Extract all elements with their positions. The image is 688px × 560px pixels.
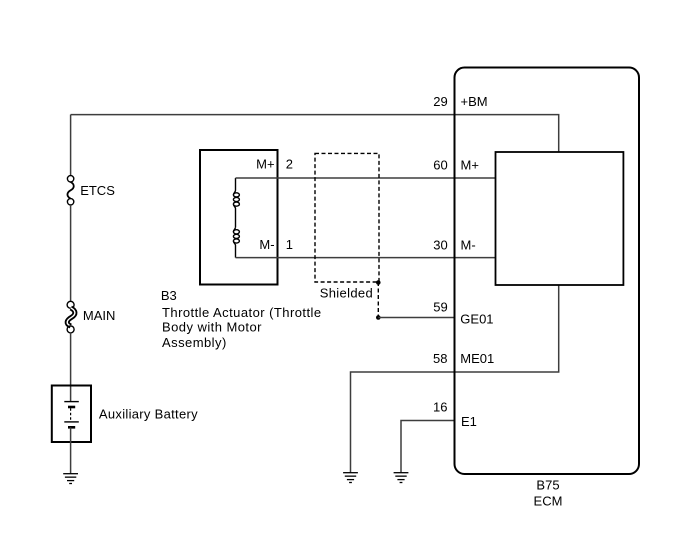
junction dot at shield corner [376,280,381,285]
fusible link MAIN [67,301,75,333]
ground under battery [63,474,78,484]
svg-text:Auxiliary Battery: Auxiliary Battery [99,406,198,421]
wire +BM from battery feed to ECM pin 29 and internal drop to driver block [71,115,559,152]
svg-text:M-: M- [259,237,274,252]
svg-text:B3: B3 [161,288,177,303]
svg-text:1: 1 [286,237,293,252]
svg-text:B75: B75 [536,478,559,493]
svg-text:30: 30 [433,238,447,253]
shield drain dashed wire [377,282,379,318]
component box B3 throttle actuator [200,150,278,285]
svg-text:MAIN: MAIN [83,308,116,323]
wire E1 from ground to ECM pin 16 [401,421,455,473]
svg-text:16: 16 [433,400,447,415]
shielded cable dashed box [315,153,379,282]
svg-text:ME01: ME01 [460,351,494,366]
wire between coils [235,209,237,228]
ECM internal driver block [496,152,624,285]
svg-text:Body with Motor: Body with Motor [162,320,262,335]
svg-text:Assembly): Assembly) [162,335,227,350]
wire left vertical battery feed (top segment above ETCS fuse) [70,115,72,176]
svg-text:+BM: +BM [461,94,488,109]
wire M- from coil to ECM pin 30 [236,257,496,259]
svg-text:M+: M+ [256,156,274,171]
svg-text:M+: M+ [461,158,479,173]
battery box (Auxiliary Battery) [52,386,91,443]
ECM connector box B75 (rounded) [455,68,640,475]
svg-text:58: 58 [433,351,447,366]
wire between MAIN fusible link and battery positive plate [70,333,72,401]
battery cell symbol [64,402,79,428]
svg-text:ECM: ECM [534,494,563,509]
wire battery negative to ground [70,427,72,473]
motor coil winding L2 (lower) [233,227,239,258]
wire GE01 shield drain to ECM pin 59 [378,317,454,319]
svg-text:E1: E1 [461,414,477,429]
junction dot at GE01 wire [376,315,381,320]
motor coil winding L1 (upper) [233,178,239,209]
wire between ETCS fuse and MAIN fusible link [70,205,72,302]
svg-text:M-: M- [461,238,476,253]
svg-text:59: 59 [433,300,447,315]
ground for ME01 [343,473,358,483]
svg-text:Shielded: Shielded [320,285,373,300]
svg-text:29: 29 [433,94,447,109]
wire M+ from coil to ECM pin 60 [236,177,496,179]
fuse ETCS [67,176,73,205]
svg-text:GE01: GE01 [460,311,493,326]
wire ME01 from ground through ECM pin 58 to driver block [351,285,559,473]
svg-text:60: 60 [433,158,447,173]
ground for E1 [394,473,409,483]
svg-text:ETCS: ETCS [80,183,115,198]
svg-text:2: 2 [286,156,293,171]
svg-text:Throttle Actuator (Throttle: Throttle Actuator (Throttle [162,305,322,320]
